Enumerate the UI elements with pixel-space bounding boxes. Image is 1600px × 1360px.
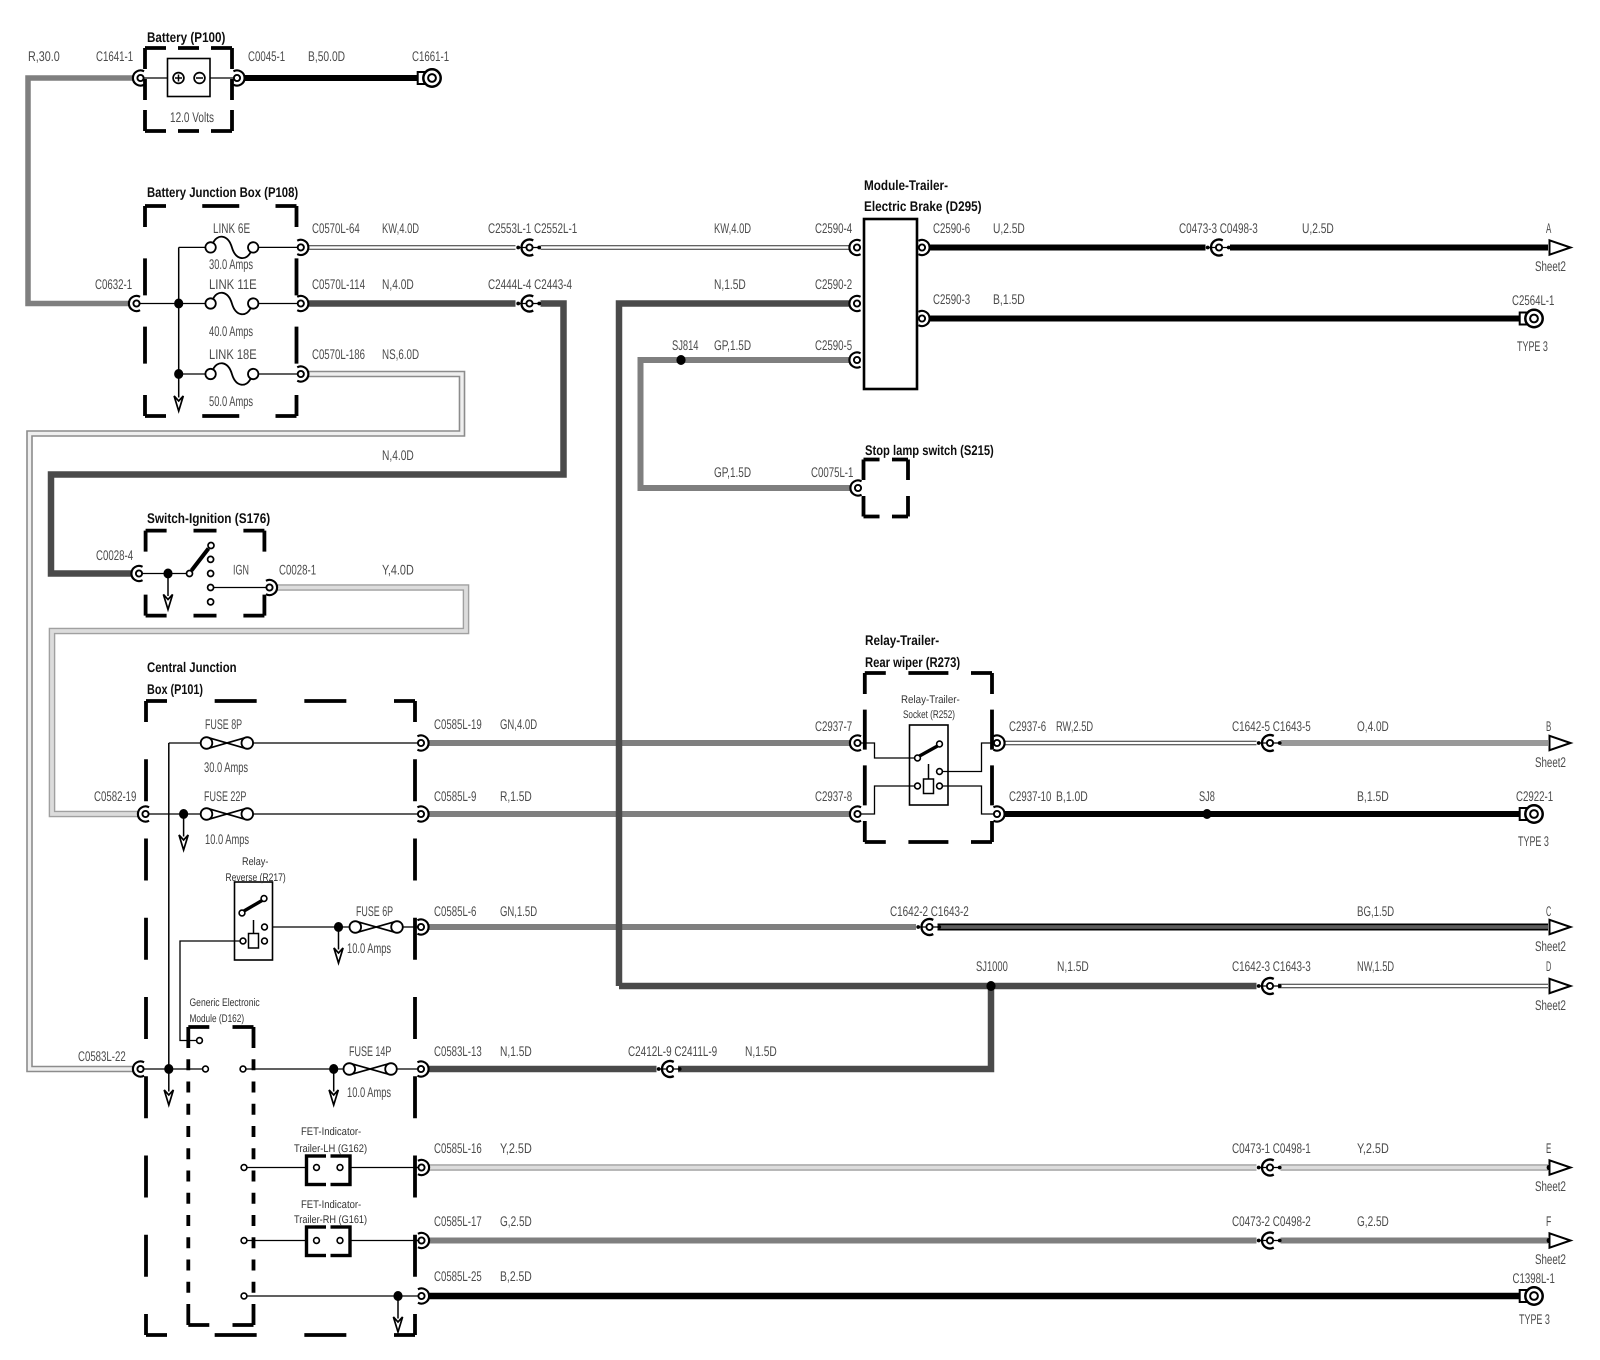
svg-text:C2412L-9 C2411L-9: C2412L-9 C2411L-9 <box>628 1043 717 1059</box>
svg-text:BG,1.5D: BG,1.5D <box>1357 903 1394 919</box>
connector C0585L-9 <box>417 806 428 821</box>
svg-text:30.0 Amps: 30.0 Amps <box>204 759 248 775</box>
wire N,1.5D fuse 14P to inline connector <box>429 1066 657 1073</box>
connector C0585L-17 <box>418 1233 429 1248</box>
svg-text:RW,2.5D: RW,2.5D <box>1056 718 1093 734</box>
wire ignition IGN output <box>214 587 267 589</box>
svg-text:GP,1.5D: GP,1.5D <box>714 337 751 353</box>
wire G,2.5D FET indicator RH to inline connector <box>430 1238 1257 1244</box>
wire R,1.5D fuse 22P to trailer relay <box>429 811 850 817</box>
svg-text:N,4.0D: N,4.0D <box>382 276 414 292</box>
connector C2937-10 <box>993 806 1004 821</box>
svg-text:U,2.5D: U,2.5D <box>1302 220 1334 236</box>
wire BJB feed bus <box>140 303 206 305</box>
wire R,30.0 battery feed <box>28 78 133 304</box>
svg-text:NW,1.5D: NW,1.5D <box>1357 958 1394 974</box>
svg-text:C0028-4: C0028-4 <box>96 547 133 563</box>
connector C2590-4 <box>849 240 860 255</box>
wire N,4.0D inline connector to ignition switch <box>51 304 564 574</box>
svg-text:O,4.0D: O,4.0D <box>1357 718 1389 734</box>
svg-text:Reverse (R217): Reverse (R217) <box>226 872 286 884</box>
relay R217 switched output pin <box>262 924 268 930</box>
svg-text:30.0 Amps: 30.0 Amps <box>209 256 253 272</box>
splice arrow below fuse 14P row <box>164 1069 173 1105</box>
svg-text:TYPE 3: TYPE 3 <box>1519 1311 1550 1327</box>
sheet arrow C <box>1550 920 1571 934</box>
relay R252 lever <box>920 746 938 756</box>
connector C0075L-1 <box>850 480 861 495</box>
svg-text:Socket (R252): Socket (R252) <box>903 709 955 721</box>
svg-text:C2590-6: C2590-6 <box>933 220 970 236</box>
switch ignition S176 dashed outline <box>146 531 265 616</box>
svg-text:10.0 Amps: 10.0 Amps <box>205 831 249 847</box>
wire GP,1.5D stop lamp switch to brake module <box>641 360 851 488</box>
wire FET LH to connector <box>343 1167 418 1169</box>
relay R217 switch common contact <box>239 910 245 916</box>
junction fuse 22P feed splice <box>179 809 188 819</box>
wire relay output to C2937-6 <box>943 743 994 772</box>
svg-text:Trailer-RH (G161): Trailer-RH (G161) <box>294 1214 367 1226</box>
svg-text:C0585L-19: C0585L-19 <box>434 716 482 732</box>
connector C0028-1 <box>266 580 277 595</box>
svg-text:B,2.5D: B,2.5D <box>500 1268 532 1284</box>
wire O,4.0D inline connector to sheet arrow B <box>1281 740 1549 746</box>
wire NS,6.0D link 18E to central junction box <box>30 374 463 1069</box>
wire fuse 14P output <box>397 1068 418 1070</box>
connector C0585L-6 <box>417 919 428 934</box>
svg-text:B,1.0D: B,1.0D <box>1056 788 1088 804</box>
relay trailer socket R252 box <box>910 725 949 805</box>
svg-text:C1398L-1: C1398L-1 <box>1513 1270 1556 1286</box>
wire KW,4.0D link 6E to inline connector <box>309 245 516 249</box>
GEM pin fuse14 row in <box>203 1066 209 1072</box>
svg-text:R,1.5D: R,1.5D <box>500 788 532 804</box>
wire B,1.5D brake module to ground C2564L-1 <box>930 316 1520 322</box>
svg-text:C0583L-13: C0583L-13 <box>434 1043 482 1059</box>
svg-text:GN,4.0D: GN,4.0D <box>500 716 537 732</box>
GEM pin FET RH row <box>241 1238 247 1244</box>
wire relay R217 coil to GEM <box>180 941 240 1041</box>
wire U,2.5D brake module to inline connector <box>930 245 1206 251</box>
svg-text:Y,4.0D: Y,4.0D <box>382 562 414 578</box>
wire B,2.5D generic electronic module to ground <box>430 1293 1520 1300</box>
svg-text:10.0 Amps: 10.0 Amps <box>347 940 391 956</box>
splice arrow below fuse 14P feed <box>329 1069 338 1105</box>
wire Y,2.5D FET indicator LH to inline connector <box>430 1164 1257 1171</box>
svg-text:C2937-10: C2937-10 <box>1009 788 1052 804</box>
connector C0028-4 <box>131 566 142 581</box>
battery positive terminal <box>173 73 184 84</box>
svg-text:C2590-2: C2590-2 <box>815 276 852 292</box>
junction CJB bus at fuse 14P row <box>164 1064 173 1074</box>
svg-text:C: C <box>1546 903 1551 919</box>
relay R252 coil pin left <box>915 783 921 789</box>
relay R252 coil pin right <box>937 783 943 789</box>
svg-text:C2564L-1: C2564L-1 <box>1512 292 1555 308</box>
wire Y,4.0D ignition switch to central junction box <box>52 588 466 815</box>
splice arrow below ignition feed <box>163 574 172 610</box>
svg-text:IGN: IGN <box>233 562 249 578</box>
splice arrow below fuse 6P feed <box>334 927 343 963</box>
ground ring terminal C2922-1 <box>1520 805 1543 822</box>
svg-text:N,4.0D: N,4.0D <box>382 447 414 463</box>
svg-text:Module (D162): Module (D162) <box>190 1013 245 1025</box>
svg-text:R,30.0: R,30.0 <box>28 48 60 64</box>
wire fuse 6P output <box>403 926 418 928</box>
sheet arrow F <box>1550 1233 1571 1247</box>
svg-text:N,1.5D: N,1.5D <box>714 276 746 292</box>
svg-text:Battery (P100): Battery (P100) <box>147 29 225 45</box>
connector C0583L-13 <box>417 1061 428 1076</box>
ignition switch IGN contact <box>208 585 214 591</box>
svg-text:Sheet2: Sheet2 <box>1535 754 1566 770</box>
relay R217 coil pin right <box>262 938 268 944</box>
relay R217 coil pin left <box>240 938 246 944</box>
fusible link 18E <box>205 363 258 385</box>
wire fuse 22P output <box>253 813 418 815</box>
ground ring terminal C2564L-1 <box>1520 310 1543 327</box>
wire G,2.5D inline connector to sheet arrow F <box>1281 1238 1549 1244</box>
ground ring terminal C1661-1 <box>418 69 441 86</box>
svg-text:G,2.5D: G,2.5D <box>1357 1213 1389 1229</box>
svg-text:B: B <box>1546 718 1551 734</box>
svg-text:FUSE 8P: FUSE 8P <box>205 716 242 732</box>
relay R217 lever <box>244 901 262 912</box>
svg-text:Relay-Trailer-: Relay-Trailer- <box>865 632 939 648</box>
inline connector C2553L-1 C2552L-1 <box>516 240 541 256</box>
svg-text:Generic Electronic: Generic Electronic <box>190 997 261 1009</box>
wire fuse 14P row b <box>246 1068 344 1070</box>
svg-text:10.0 Amps: 10.0 Amps <box>347 1084 391 1100</box>
wire fuse 8P output <box>253 742 418 744</box>
svg-text:FET-Indicator-: FET-Indicator- <box>301 1126 361 1138</box>
inline connector C0473-2 C0498-2 <box>1257 1233 1282 1249</box>
wire fuse 22P row <box>149 813 201 815</box>
svg-text:40.0 Amps: 40.0 Amps <box>209 323 253 339</box>
relay R252 switch NO contact <box>937 741 943 747</box>
svg-text:FUSE 6P: FUSE 6P <box>356 903 393 919</box>
svg-text:12.0 Volts: 12.0 Volts <box>170 109 214 125</box>
connector C0582-19 <box>138 806 149 821</box>
svg-text:G,2.5D: G,2.5D <box>500 1213 532 1229</box>
GEM pin FET LH row <box>241 1165 247 1171</box>
wire link 6E row <box>179 246 206 248</box>
wire end dot row E <box>1547 1165 1552 1170</box>
svg-text:Sheet2: Sheet2 <box>1535 1178 1566 1194</box>
svg-text:C0045-1: C0045-1 <box>248 48 285 64</box>
svg-text:A: A <box>1546 220 1552 236</box>
connector C2590-5 <box>849 352 860 367</box>
battery negative terminal <box>194 73 205 84</box>
junction ignition feed <box>163 569 172 579</box>
connector C1641-1 <box>133 70 144 85</box>
svg-text:Module-Trailer-: Module-Trailer- <box>864 177 948 193</box>
wire C2937-7 to relay switch <box>861 743 915 758</box>
battery P100 cell box <box>168 59 211 97</box>
svg-text:FET-Indicator-: FET-Indicator- <box>301 1199 361 1211</box>
svg-text:Battery Junction Box (P108): Battery Junction Box (P108) <box>147 184 298 200</box>
svg-text:SJ1000: SJ1000 <box>976 958 1008 974</box>
splice arrow below BJB bus <box>174 375 183 411</box>
svg-text:Switch-Ignition (S176): Switch-Ignition (S176) <box>147 510 270 526</box>
wire CJB bus vertical <box>168 743 170 1069</box>
svg-text:Sheet2: Sheet2 <box>1535 997 1566 1013</box>
wire U,2.5D inline connector to sheet arrow A <box>1230 245 1548 251</box>
svg-text:C2937-7: C2937-7 <box>815 718 852 734</box>
svg-text:Sheet2: Sheet2 <box>1535 1251 1566 1267</box>
wire link 18E output <box>256 373 298 375</box>
svg-text:C1641-1: C1641-1 <box>96 48 133 64</box>
svg-text:C0570L-186: C0570L-186 <box>312 346 365 362</box>
wire BG,1.5D inline connector to sheet arrow C <box>938 924 1549 931</box>
ignition switch common contact <box>187 571 193 577</box>
fuse 8P <box>201 737 253 749</box>
connector C0570L-114 <box>297 296 308 311</box>
wire B,1.0D relay socket through SJ8 to ground <box>1005 811 1520 817</box>
FET LH pin left <box>314 1165 320 1171</box>
wire GN,4.0D fuse 8P to trailer relay <box>429 740 850 746</box>
GEM pin for relay control <box>197 1038 203 1044</box>
junction BJB bus at link 18E <box>174 369 183 379</box>
svg-text:KW,4.0D: KW,4.0D <box>714 220 751 236</box>
connector C0583L-22 <box>133 1061 144 1076</box>
relay R252 switched output pin <box>937 769 943 775</box>
svg-text:C0585L-17: C0585L-17 <box>434 1213 482 1229</box>
splice arrow below fuse 22P feed <box>179 814 188 850</box>
svg-text:C0582-19: C0582-19 <box>94 788 137 804</box>
connector C2590-6 <box>918 240 929 255</box>
svg-text:GN,1.5D: GN,1.5D <box>500 903 537 919</box>
svg-text:Box (P101): Box (P101) <box>147 681 203 697</box>
svg-text:B,1.5D: B,1.5D <box>1357 788 1389 804</box>
FET indicator trailer LH G162 box <box>307 1153 351 1188</box>
FET RH pin left <box>314 1238 320 1244</box>
connector C2590-3 <box>918 311 929 326</box>
inline connector C1642-5 C1643-5 <box>1257 735 1282 751</box>
FET LH pin right <box>337 1165 343 1171</box>
wire N,1.5D to brake module C2590-2 <box>619 304 849 987</box>
wire B,50.0D battery ground <box>245 75 418 81</box>
relay R217 coil bar <box>253 920 255 934</box>
wire relay coil to C2937-10 <box>943 786 994 814</box>
fusible link 6E <box>205 237 258 259</box>
svg-text:C2937-8: C2937-8 <box>815 788 852 804</box>
svg-text:C0473-3 C0498-3: C0473-3 C0498-3 <box>1179 220 1258 236</box>
svg-text:C0583L-22: C0583L-22 <box>78 1048 126 1064</box>
svg-text:C1642-3 C1643-3: C1642-3 C1643-3 <box>1232 958 1311 974</box>
svg-text:LINK 18E: LINK 18E <box>209 346 257 362</box>
connector C0570L-64 <box>297 240 308 255</box>
relay R252 coil bar <box>928 764 930 779</box>
svg-text:N,1.5D: N,1.5D <box>745 1043 777 1059</box>
stop lamp switch S215 dashed outline <box>864 460 909 517</box>
ground ring terminal C1398L-1 <box>1520 1287 1543 1304</box>
wire KW,4.0D inline connector to brake module <box>541 245 850 249</box>
wire link 18E row <box>179 373 206 375</box>
svg-text:C2444L-4 C2443-4: C2444L-4 C2443-4 <box>488 276 572 292</box>
sheet arrow E <box>1550 1160 1571 1174</box>
GEM pin ground row <box>241 1293 247 1299</box>
connector C0585L-19 <box>417 735 428 750</box>
wire GEM to FET RH <box>247 1240 314 1242</box>
inline connector C0473-3 C0498-3 <box>1206 240 1231 256</box>
FET RH pin right <box>337 1238 343 1244</box>
svg-text:50.0 Amps: 50.0 Amps <box>209 393 253 409</box>
svg-text:Sheet2: Sheet2 <box>1535 938 1566 954</box>
svg-text:C1642-2 C1643-2: C1642-2 C1643-2 <box>890 903 969 919</box>
svg-text:C2937-6: C2937-6 <box>1009 718 1046 734</box>
relay reverse R217 box <box>235 882 273 960</box>
connector C2937-8 <box>850 806 861 821</box>
svg-text:C0585L-9: C0585L-9 <box>434 788 477 804</box>
ignition switch contact 3 <box>208 571 214 577</box>
svg-text:C0632-1: C0632-1 <box>95 276 132 292</box>
svg-text:D: D <box>1546 958 1551 974</box>
svg-text:C0585L-16: C0585L-16 <box>434 1140 482 1156</box>
svg-text:C1642-5 C1643-5: C1642-5 C1643-5 <box>1232 718 1311 734</box>
junction fuse 6P feed splice <box>334 922 343 932</box>
connector C0585L-16 <box>418 1160 429 1175</box>
svg-text:B,1.5D: B,1.5D <box>993 291 1025 307</box>
wire end dot row F <box>1547 1238 1552 1243</box>
svg-text:C2922-1: C2922-1 <box>1516 788 1553 804</box>
wire BJB bus vertical <box>178 247 180 375</box>
svg-text:C2553L-1 C2552L-1: C2553L-1 C2552L-1 <box>488 220 577 236</box>
svg-text:C0585L-6: C0585L-6 <box>434 903 477 919</box>
ignition switch lever contact <box>208 543 214 549</box>
relay R252 coil box <box>924 779 934 794</box>
svg-text:GP,1.5D: GP,1.5D <box>714 464 751 480</box>
connector C2590-2 <box>849 296 860 311</box>
wire link 11E output <box>256 303 298 305</box>
wire relay R217 to fuse 6P <box>268 926 350 928</box>
svg-text:TYPE 3: TYPE 3 <box>1518 833 1549 849</box>
generic electronic module D162 dashed outline <box>188 1027 253 1325</box>
splice junction SJ1000 <box>986 981 995 991</box>
svg-text:C2590-5: C2590-5 <box>815 337 852 353</box>
wire GN,1.5D fuse 6P to inline connector <box>429 924 916 930</box>
ignition switch lever <box>192 549 209 571</box>
svg-text:Stop lamp switch (S215): Stop lamp switch (S215) <box>865 442 994 458</box>
svg-text:Rear wiper (R273): Rear wiper (R273) <box>865 654 960 670</box>
central junction box P101 dashed outline <box>146 701 415 1335</box>
ignition switch contact 5 <box>208 599 214 605</box>
svg-text:Electric Brake (D295): Electric Brake (D295) <box>864 198 982 214</box>
svg-text:SJ8: SJ8 <box>1199 788 1215 804</box>
fuse 6P <box>350 921 403 933</box>
sheet arrow A <box>1550 240 1571 254</box>
junction ground row splice <box>393 1291 402 1301</box>
svg-text:LINK 11E: LINK 11E <box>209 276 257 292</box>
svg-text:Relay-: Relay- <box>242 856 269 868</box>
sheet arrow D <box>1550 979 1571 993</box>
wire relay coil to C2937-8 <box>861 786 915 814</box>
svg-text:LINK 6E: LINK 6E <box>213 220 250 236</box>
svg-text:FUSE 22P: FUSE 22P <box>204 788 246 804</box>
GEM pin fuse14 row out <box>240 1066 246 1072</box>
svg-text:C0028-1: C0028-1 <box>279 562 316 578</box>
svg-text:Y,2.5D: Y,2.5D <box>1357 1140 1389 1156</box>
svg-text:Trailer-LH (G162): Trailer-LH (G162) <box>294 1143 367 1155</box>
svg-text:C1661-1: C1661-1 <box>412 48 449 64</box>
svg-text:E: E <box>1546 1140 1551 1156</box>
svg-text:C0570L-64: C0570L-64 <box>312 220 360 236</box>
connector C2937-7 <box>850 735 861 750</box>
wire link 6E output <box>256 246 298 248</box>
svg-text:C0570L-114: C0570L-114 <box>312 276 365 292</box>
inline connector C1642-2 C1643-2 <box>916 919 941 935</box>
wire ignition common <box>142 573 187 575</box>
svg-text:N,1.5D: N,1.5D <box>500 1043 532 1059</box>
svg-text:NS,6.0D: NS,6.0D <box>382 346 419 362</box>
wire N,1.5D SJ1000 branch to fuse 14P row <box>678 986 991 1069</box>
svg-text:C0075L-1: C0075L-1 <box>811 464 854 480</box>
wire fuse 8P row <box>169 742 201 744</box>
wire fuse 14P row a <box>144 1068 203 1070</box>
wire Y,2.5D inline connector to sheet arrow E <box>1281 1164 1549 1171</box>
relay R252 switch common contact <box>915 755 921 761</box>
fuse 22P <box>201 808 253 820</box>
ignition switch contact 2 <box>208 556 214 562</box>
splice arrow below ground row <box>393 1296 402 1332</box>
svg-text:C0585L-25: C0585L-25 <box>434 1268 482 1284</box>
wire RW,2.5D relay socket to inline connector <box>1005 741 1257 745</box>
relay R217 coil box <box>249 934 259 949</box>
svg-text:F: F <box>1546 1213 1551 1229</box>
svg-text:Relay-Trailer-: Relay-Trailer- <box>901 694 960 706</box>
svg-text:TYPE 3: TYPE 3 <box>1517 338 1548 354</box>
wire N,1.5D splice run to inline connector D <box>619 983 1257 990</box>
svg-text:Y,2.5D: Y,2.5D <box>500 1140 532 1156</box>
inline connector C0473-1 C0498-1 <box>1257 1160 1282 1176</box>
battery P100 dashed outline <box>145 48 232 131</box>
relay trailer rear wiper R273 dashed outline <box>865 673 992 842</box>
battery junction box P108 dashed outline <box>145 206 297 416</box>
svg-text:B,50.0D: B,50.0D <box>308 48 345 64</box>
svg-text:C2590-4: C2590-4 <box>815 220 852 236</box>
svg-text:U,2.5D: U,2.5D <box>993 220 1025 236</box>
svg-text:Central Junction: Central Junction <box>147 659 237 675</box>
svg-text:N,1.5D: N,1.5D <box>1057 958 1089 974</box>
wire GEM to FET LH <box>247 1167 314 1169</box>
fusible link 11E <box>205 293 258 315</box>
inline connector C2444L-4 C2443-4 <box>516 296 541 312</box>
splice junction SJ814 <box>676 355 685 365</box>
junction fuse 14P feed splice <box>329 1064 338 1074</box>
relay R217 switch NO contact <box>261 896 267 902</box>
wire N,4.0D link 11E to inline connector <box>309 300 516 307</box>
svg-text:C0473-2 C0498-2: C0473-2 C0498-2 <box>1232 1213 1311 1229</box>
connector C0632-1 <box>129 296 140 311</box>
svg-text:SJ814: SJ814 <box>672 337 699 353</box>
svg-text:FUSE 14P: FUSE 14P <box>349 1043 391 1059</box>
wire GEM ground row <box>247 1295 418 1297</box>
module trailer electric brake D295 box <box>864 219 917 389</box>
connector C0045-1 <box>233 70 244 85</box>
connector C0585L-25 <box>418 1288 429 1303</box>
svg-text:C2590-3: C2590-3 <box>933 291 970 307</box>
wire NW,1.5D inline connector to sheet arrow D <box>1278 984 1548 988</box>
junction BJB bus at link 11E <box>174 299 183 309</box>
wire FET RH to connector <box>343 1240 418 1242</box>
fuse 14P <box>344 1063 397 1075</box>
svg-text:C0473-1 C0498-1: C0473-1 C0498-1 <box>1232 1140 1311 1156</box>
splice junction SJ8 <box>1202 809 1211 819</box>
connector C2937-6 <box>993 735 1004 750</box>
sheet arrow B <box>1550 736 1571 750</box>
wire battery internal <box>144 77 234 79</box>
inline connector C2412L-9 C2411L-9 <box>657 1061 682 1077</box>
